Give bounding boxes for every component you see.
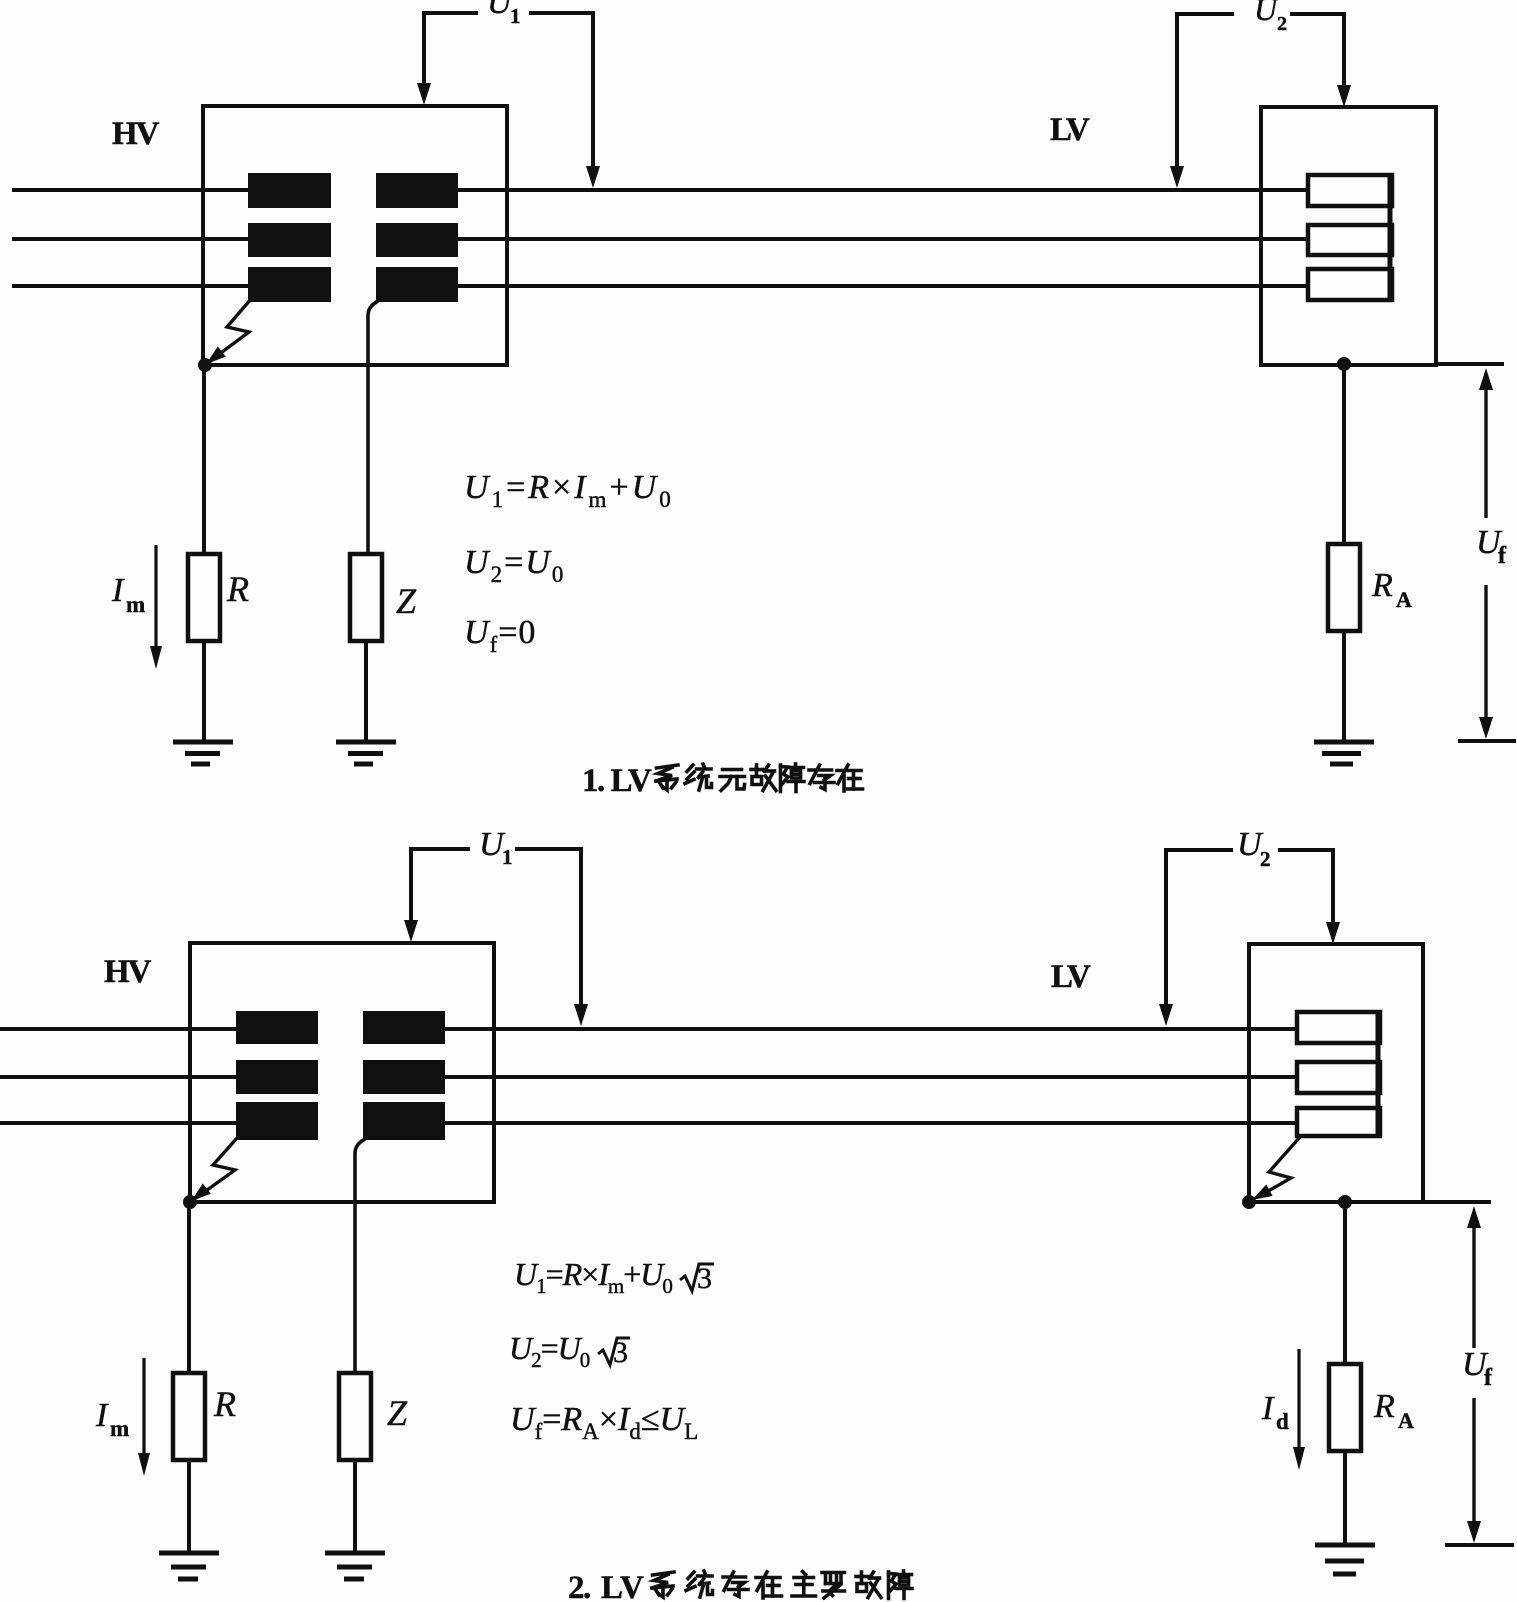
wire: LV box bottom extension to the right (diagram 2)	[1423, 1200, 1491, 1204]
svg-text:f: f	[1484, 1365, 1493, 1391]
wire: bus line L3 right segment (diagram 1)	[385, 284, 1310, 288]
svg-text:2: 2	[1277, 13, 1287, 35]
wire: impedance Z to ground (diagram 1)	[364, 641, 368, 742]
vertical bus bar joining LV fuse elements (diagram 2)	[1376, 1012, 1381, 1136]
node: HV neutral junction dot (diagram 2)	[183, 1195, 197, 1209]
wire: bus line L1 right segment to LV switch (diagram 1)	[385, 188, 1310, 192]
arrowhead of U1 bracket onto transformer box (diagram 1)	[417, 83, 431, 105]
Uf dimension arrow upper segment (diagram 2)	[1472, 1226, 1475, 1348]
impedance Z (diagram 1)	[350, 554, 382, 641]
wire: HV bus line L2 left segment (diagram 1)	[12, 237, 300, 241]
node: HV neutral junction dot (diagram 1)	[198, 358, 212, 372]
caption 2 character 统	[686, 1571, 713, 1597]
svg-text:A: A	[1396, 587, 1412, 612]
ground symbol below Z (diagram 1)	[336, 740, 396, 745]
arrowhead of LV fault zigzag (diagram 2)	[1252, 1185, 1273, 1201]
wire: LV neutral down to resistor RA (diagram 2)	[1343, 1202, 1347, 1365]
wire: HV bus line L1 left segment (diagram 1)	[12, 188, 300, 192]
caption 2 character 障	[889, 1571, 913, 1599]
current Im arrow line (diagram 1)	[154, 545, 157, 648]
LV fuse element phase C (white bar, diagram 2)	[1297, 1108, 1380, 1136]
wire: LV box bottom extension to the right (diagram 1)	[1436, 362, 1504, 366]
impedance Z (diagram 2)	[339, 1373, 371, 1460]
U1 measurement bracket right segment (diagram 1)	[529, 13, 593, 167]
resistor RA (diagram 2)	[1329, 1364, 1361, 1451]
wire: neutral down to resistor R (diagram 1)	[202, 365, 206, 556]
caption 1 character 统	[685, 764, 712, 790]
U1 measurement bracket right segment (diagram 2)	[515, 849, 581, 1005]
transformer T2 secondary winding phase A (black bar)	[363, 1011, 445, 1044]
svg-text:m: m	[110, 1416, 129, 1441]
caption 1 character 存	[809, 765, 834, 790]
zigzag neutral link arrow inside T1 (diagram 1)	[210, 299, 251, 361]
caption 2 character 要	[822, 1573, 845, 1599]
svg-text:LV: LV	[1051, 959, 1091, 995]
svg-text:U2=U0: U2=U0	[464, 544, 565, 587]
caption 1 character 系	[656, 765, 678, 790]
transformer T2 secondary winding phase C (black bar)	[363, 1102, 445, 1140]
arrowhead of U1 bracket onto bus line L1 (diagram 1)	[586, 166, 600, 188]
svg-text:f: f	[1498, 543, 1507, 569]
svg-text:U1=R×Im+U0: U1=R×Im+U0	[464, 469, 674, 512]
svg-text:I: I	[111, 572, 125, 609]
wire: HV bus line L1 left segment (diagram 2)	[0, 1027, 290, 1031]
svg-text:1: 1	[510, 4, 521, 28]
U1 measurement bracket left segment (diagram 1)	[424, 13, 478, 84]
transformer T2 primary winding phase B (black bar)	[236, 1060, 318, 1094]
svg-text:m: m	[126, 592, 145, 617]
ground symbol below Z (diagram 2)	[325, 1551, 385, 1556]
transformer T1 primary winding phase C (black bar)	[248, 267, 331, 302]
caption 2 character 在	[756, 1572, 782, 1598]
arrowhead of U2 bracket onto bus line L1 (diagram 1)	[1170, 166, 1184, 188]
Uf dimension arrow lower segment (diagram 1)	[1484, 585, 1487, 719]
svg-text:U: U	[1254, 0, 1279, 27]
svg-text:LV: LV	[601, 1570, 644, 1602]
lower arrowhead of Uf dimension (diagram 2)	[1467, 1521, 1481, 1543]
LV fuse element phase B (white bar, diagram 1)	[1308, 225, 1392, 255]
svg-text:d: d	[1276, 1409, 1289, 1434]
arrowhead of U2 bracket onto LV box (diagram 2)	[1326, 922, 1340, 944]
arrowhead of U1 bracket onto transformer box (diagram 2)	[404, 920, 418, 942]
transformer T1 secondary winding phase B (black bar)	[376, 223, 458, 257]
caption 1 character 障	[781, 764, 805, 792]
svg-text:1. LV: 1. LV	[582, 763, 652, 799]
svg-text:Z: Z	[396, 581, 417, 621]
node: LV neutral junction dot (diagram 2)	[1338, 1195, 1352, 1209]
ground symbol below RA (diagram 1)	[1314, 740, 1374, 745]
current Id arrow line (diagram 2)	[1297, 1349, 1300, 1449]
arrowhead of U2 bracket onto LV box (diagram 1)	[1337, 85, 1351, 107]
resistor R (diagram 2)	[173, 1373, 205, 1460]
arrowhead of U1 bracket onto bus line L1 (diagram 2)	[574, 1004, 588, 1026]
transformer T1 secondary winding phase C (black bar)	[376, 267, 458, 302]
svg-text:I: I	[1261, 1390, 1275, 1427]
ground symbol below R (diagram 2)	[159, 1551, 219, 1556]
U2 measurement bracket right segment (diagram 1)	[1290, 14, 1344, 86]
LV fuse element phase C (white bar, diagram 1)	[1308, 269, 1392, 300]
svg-text:A: A	[1398, 1408, 1414, 1433]
ground reference tick for Uf (diagram 1)	[1458, 739, 1516, 743]
transformer T2 primary winding phase A (black bar)	[236, 1011, 318, 1044]
svg-text:Uf=RA×Id≤UL: Uf=RA×Id≤UL	[510, 1401, 698, 1444]
caption 2 character 系	[652, 1572, 674, 1597]
svg-text:U2=U0: U2=U0	[509, 1330, 590, 1372]
wire: bus line L1 right segment to LV switch (diagram 2)	[372, 1027, 1300, 1031]
svg-text:1: 1	[502, 845, 513, 869]
transformer T2 enclosure box (diagram 2)	[190, 943, 494, 1202]
svg-text:R: R	[1373, 1388, 1395, 1425]
svg-text:Uf=0: Uf=0	[464, 614, 536, 657]
arrowhead of Im arrow (diagram 2)	[138, 1453, 150, 1476]
ground symbol below R (diagram 1)	[173, 740, 233, 745]
U2 measurement bracket right segment (diagram 2)	[1278, 850, 1333, 923]
U2 measurement bracket left segment (diagram 1)	[1177, 14, 1234, 167]
current Im arrow line (diagram 2)	[142, 1358, 145, 1455]
U2 measurement bracket left segment (diagram 2)	[1166, 850, 1233, 1005]
LV fuse element phase A (white bar, diagram 2)	[1297, 1012, 1380, 1043]
svg-text:I: I	[95, 1397, 109, 1434]
ground symbol below RA (diagram 2)	[1315, 1543, 1375, 1548]
caption 1 character 故	[751, 765, 776, 791]
vertical bus bar joining LV fuse elements (diagram 1)	[1388, 175, 1393, 300]
wire: resistor R to ground (diagram 2)	[187, 1460, 191, 1553]
LV switchboard enclosure box (diagram 1)	[1261, 107, 1436, 365]
resistor R (diagram 1)	[188, 554, 220, 641]
arrowhead of Im arrow (diagram 1)	[150, 646, 162, 669]
wire: HV bus line L3 left segment (diagram 2)	[0, 1121, 290, 1125]
wire: bus line L2 right segment (diagram 1)	[385, 237, 1310, 241]
upper arrowhead of Uf dimension (diagram 2)	[1467, 1206, 1481, 1228]
zigzag neutral link arrow inside T2 (diagram 2)	[196, 1137, 238, 1198]
wire: bus line L2 right segment (diagram 2)	[372, 1075, 1300, 1079]
Uf dimension arrow upper segment (diagram 1)	[1484, 388, 1487, 518]
svg-text:R: R	[226, 569, 249, 609]
transformer T2 secondary winding phase B (black bar)	[363, 1060, 445, 1094]
arrowhead of U2 bracket onto bus line L1 (diagram 2)	[1159, 1004, 1173, 1026]
square root radical sign in formula U1 (diagram 2)	[680, 1264, 714, 1291]
ground reference tick for Uf (diagram 2)	[1445, 1543, 1514, 1547]
arrowhead of T2 zigzag link (diagram 2)	[191, 1184, 211, 1202]
svg-text:LV: LV	[1050, 112, 1090, 148]
transformer T1 secondary winding phase A (black bar)	[376, 173, 458, 208]
LV fuse element phase A (white bar, diagram 1)	[1308, 175, 1392, 206]
caption 1 character 无	[720, 770, 745, 791]
node: LV neutral junction dot (diagram 1)	[1337, 357, 1351, 371]
lower arrowhead of Uf dimension (diagram 1)	[1479, 717, 1493, 739]
wire: transformer secondary tail to impedance Z (diagram 2)	[355, 1139, 365, 1375]
arrowhead of T1 zigzag link (diagram 1)	[206, 347, 226, 365]
wire: resistor R to ground (diagram 1)	[202, 641, 206, 742]
caption 1 character 在	[837, 765, 863, 791]
arrowhead of Id arrow (diagram 2)	[1293, 1447, 1305, 1470]
wire: transformer secondary tail to impedance Z (diagram 1)	[368, 301, 378, 556]
wire: resistor RA to ground (diagram 1)	[1342, 631, 1346, 742]
wire: HV bus line L3 left segment (diagram 1)	[12, 284, 300, 288]
svg-text:R: R	[213, 1384, 236, 1424]
caption 2 character 存	[723, 1572, 748, 1597]
U1 measurement bracket left segment (diagram 2)	[411, 849, 470, 921]
wire: neutral down to resistor R (diagram 2)	[187, 1202, 191, 1375]
wire: bus line L3 right segment (diagram 2)	[372, 1121, 1300, 1125]
svg-text:2: 2	[1260, 847, 1271, 871]
svg-text:HV: HV	[112, 116, 160, 152]
wire: LV neutral down to resistor RA (diagram 1)	[1342, 365, 1346, 545]
node: LV fault junction dot (diagram 2)	[1242, 1195, 1256, 1209]
square root radical sign in formula U2 (diagram 2)	[598, 1338, 630, 1365]
transformer T1 enclosure box (diagram 1)	[203, 106, 507, 365]
LV switchboard enclosure box (diagram 2)	[1249, 944, 1423, 1202]
zigzag fault arrow inside LV box (diagram 2)	[1258, 1137, 1300, 1197]
resistor RA (diagram 1)	[1328, 544, 1360, 631]
caption 2 character 主	[792, 1572, 816, 1597]
svg-text:HV: HV	[104, 954, 152, 990]
transformer T1 primary winding phase A (black bar)	[248, 173, 331, 208]
wire: HV bus line L2 left segment (diagram 2)	[0, 1075, 290, 1079]
svg-text:U1=R×Im+U0: U1=R×Im+U0	[514, 1256, 672, 1298]
svg-text:R: R	[1371, 567, 1393, 604]
svg-text:2.: 2.	[568, 1570, 590, 1602]
wire: impedance Z to ground (diagram 2)	[353, 1460, 357, 1553]
upper arrowhead of Uf dimension (diagram 1)	[1479, 368, 1493, 390]
svg-text:Z: Z	[387, 1393, 408, 1433]
Uf dimension arrow lower segment (diagram 2)	[1472, 1398, 1475, 1523]
transformer T2 primary winding phase C (black bar)	[236, 1102, 318, 1140]
LV fuse element phase B (white bar, diagram 2)	[1297, 1062, 1380, 1093]
transformer T1 primary winding phase B (black bar)	[248, 223, 331, 257]
wire: resistor RA to ground (diagram 2)	[1343, 1451, 1347, 1545]
caption 2 character 故	[856, 1572, 881, 1598]
